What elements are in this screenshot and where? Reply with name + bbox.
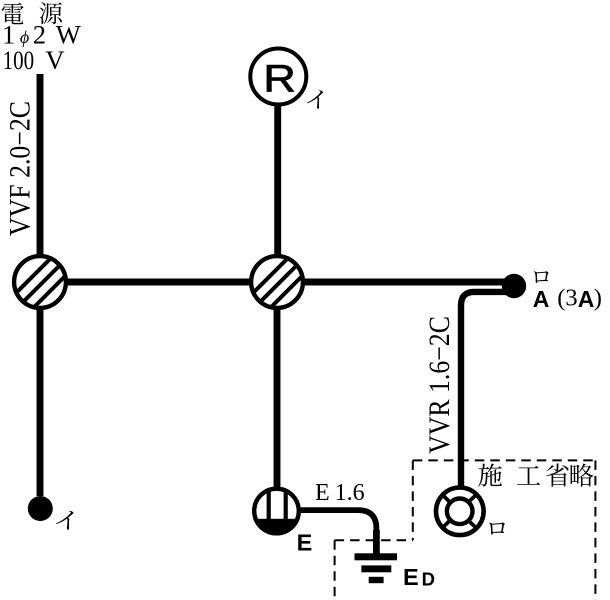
svg-text:VVR 1.6−2C: VVR 1.6−2C	[423, 316, 456, 454]
lamp receptacle R (イ)	[250, 49, 306, 105]
label: cable VVR 1.6-2C	[423, 316, 456, 454]
svg-text:(3: (3	[557, 285, 577, 312]
wire: dot to outdoor light (curved, VVR)	[461, 292, 508, 486]
svg-text:E1.6: E1.6	[315, 480, 365, 506]
label: 施工省略	[478, 463, 593, 486]
label: ロ (outdoor light)	[489, 522, 505, 534]
svg-text:): )	[594, 285, 602, 312]
label: cable VVF 2.0-2C	[4, 101, 37, 236]
ground symbol ED	[355, 530, 398, 583]
svg-text:A: A	[578, 286, 595, 312]
wire: left joint box down to switch イ	[37, 310, 44, 496]
outlet with earth terminal (E)	[252, 486, 301, 537]
wire: left joint box to center joint box	[66, 279, 251, 286]
joint box (center, VVF)	[243, 235, 311, 335]
omission boundary (dashed, 施工省略)	[335, 460, 596, 600]
wire: source drop (left vertical, upper)	[37, 74, 44, 255]
wire: R to center joint box	[274, 106, 281, 254]
automatic switch A(3A) node dot ロ	[502, 274, 526, 298]
svg-text:E: E	[297, 529, 313, 555]
svg-text:VVF 2.0−2C: VVF 2.0−2C	[4, 101, 37, 236]
label: ロ (automatic switch)	[534, 271, 549, 283]
wire: center joint box to automatic switch dot	[303, 279, 514, 286]
joint box (left, VVF)	[6, 235, 74, 335]
label: イ (lamp)	[307, 90, 323, 108]
outdoor light ロ (施工省略)	[436, 488, 484, 536]
wire: center joint box down to outlet	[274, 310, 281, 488]
wire: earth wire E1.6 to ground	[299, 510, 376, 554]
label: power source 電源	[2, 2, 62, 24]
switch イ (single pole)	[28, 496, 53, 521]
svg-text:A: A	[533, 286, 550, 312]
svg-text:R: R	[263, 57, 295, 100]
label: イ (switch)	[56, 511, 74, 530]
svg-text:100V: 100V	[3, 45, 65, 75]
